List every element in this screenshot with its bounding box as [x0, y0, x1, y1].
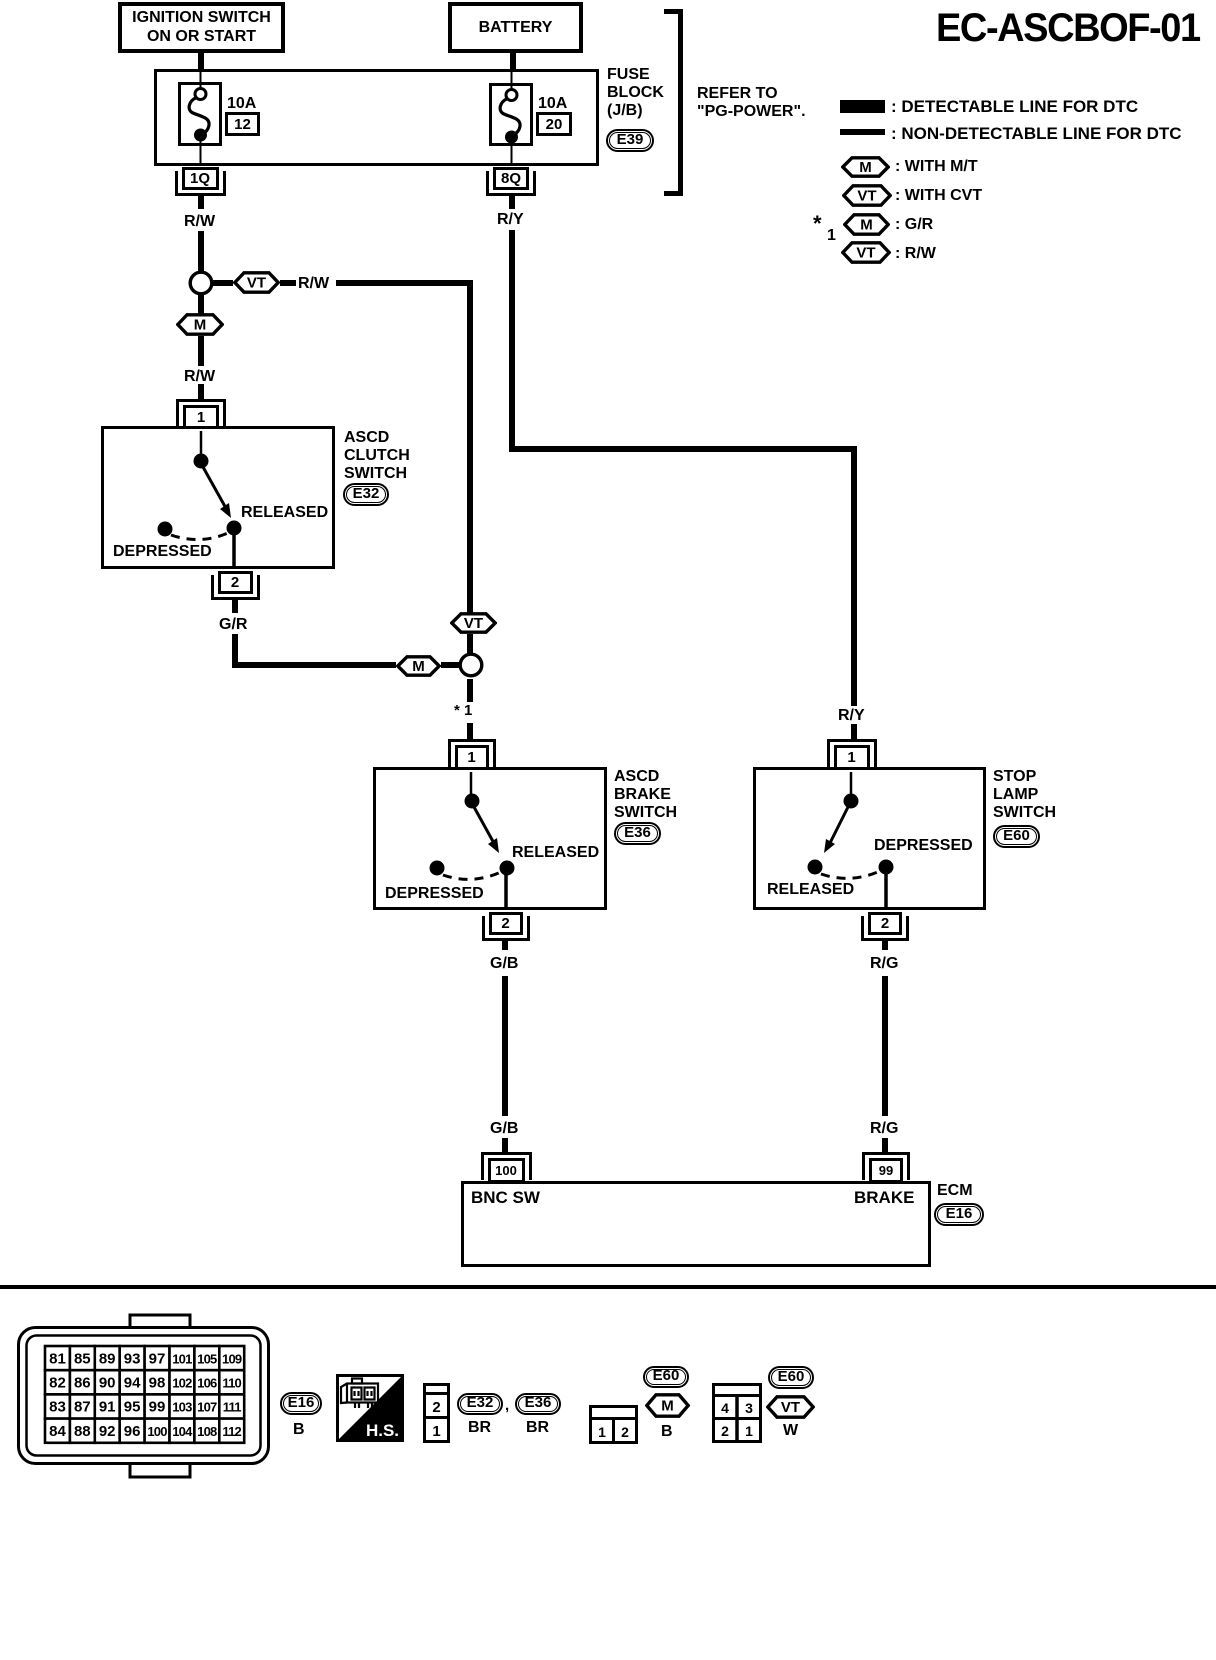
wire stub below brake pin 2: [502, 940, 508, 950]
wire G/R horizontal run to M hexagon: [232, 662, 396, 668]
wire stub below 1Q: [198, 196, 204, 209]
label ECM: [937, 1182, 973, 1200]
hexagon VT (connector view): [766, 1395, 815, 1419]
wire CVT branch into VT hexagon: [467, 612, 473, 614]
legend label detectable: [891, 97, 1138, 116]
label W (E60 CVT colour): [783, 1422, 798, 1440]
svg-text:86: 86: [74, 1375, 91, 1392]
wire label G/R: [219, 616, 247, 634]
svg-text:1: 1: [432, 1423, 440, 1440]
svg-text:84: 84: [49, 1423, 66, 1440]
label FUSE BLOCK (J/B): [607, 66, 664, 120]
connector E32 oval (view): [457, 1393, 503, 1415]
legend label G/R: [895, 216, 933, 234]
fuse 10A (slot 20) body: [489, 83, 533, 146]
svg-text:90: 90: [99, 1375, 116, 1392]
wire CVT branch vertical run to VT hexagon: [467, 280, 473, 613]
label BR (E36 colour): [526, 1419, 549, 1437]
svg-text:VT: VT: [857, 188, 876, 205]
connector E16 oval: [934, 1203, 984, 1226]
label DEPRESSED (clutch): [113, 543, 212, 561]
svg-text:82: 82: [49, 1375, 66, 1392]
wire label G/B lower: [490, 1120, 518, 1138]
wire label R/Y below 8Q: [497, 211, 524, 229]
ASCD brake switch box (E36): [373, 767, 607, 910]
svg-text:100: 100: [147, 1424, 167, 1439]
fuse 10A (slot 12) element symbol: [178, 69, 222, 169]
clutch switch contacts, arrow and throw: [101, 426, 335, 569]
separator line: [0, 1285, 1216, 1289]
pin 2 stop lamp switch: [868, 912, 902, 935]
label RELEASED (stop lamp): [767, 881, 854, 899]
connector view E32/E36 two-cavity: [423, 1383, 451, 1443]
wire label R/G upper: [870, 955, 898, 973]
svg-text:104: 104: [172, 1424, 193, 1439]
svg-text:97: 97: [149, 1350, 166, 1367]
svg-text:2: 2: [721, 1423, 729, 1439]
wire ignition switch to fuse block: [198, 53, 204, 70]
svg-text:101: 101: [172, 1351, 192, 1366]
connector E60 oval: [993, 825, 1040, 848]
wire *1 to brake switch pin 1: [467, 723, 473, 740]
fuse number 12 box: [225, 112, 260, 136]
hexagon M branch (M/T): [176, 313, 224, 336]
harness side view icon H.S.: [336, 1374, 404, 1442]
wire R/G into terminal 99: [882, 1138, 888, 1152]
svg-text:96: 96: [124, 1423, 141, 1440]
connector E16 oval (pinout): [280, 1392, 322, 1415]
legend thin non-detectable line sample: [840, 129, 885, 135]
svg-text:81: 81: [49, 1350, 66, 1367]
wire G/B long vertical: [502, 976, 508, 1116]
wire battery to fuse block: [510, 53, 516, 70]
wire label R/W on CVT branch: [298, 275, 329, 293]
ignition switch box: [118, 2, 285, 53]
legend label R/W: [895, 245, 936, 263]
svg-text:112: 112: [222, 1424, 241, 1439]
ASCD clutch switch box (E32): [101, 426, 335, 569]
legend star: [813, 212, 822, 237]
fuse 10A (slot 12) body: [178, 82, 222, 146]
legend thick detectable line sample: [840, 100, 885, 113]
wire into ASCD clutch switch pin 1: [198, 384, 204, 400]
svg-text:2: 2: [621, 1424, 629, 1440]
label ASCD CLUTCH SWITCH: [344, 429, 410, 483]
svg-text:91: 91: [99, 1399, 116, 1416]
comma between E32 and E36: [505, 1398, 509, 1415]
bracket REFER TO PG-POWER: [664, 9, 683, 14]
wire label R/W above clutch switch: [184, 368, 215, 386]
wire stub below stop lamp pin 2: [882, 940, 888, 950]
ECM box: [461, 1181, 931, 1267]
hexagon VT branch (CVT): [233, 271, 280, 294]
connector view E60 M/T two-cavity: [589, 1405, 638, 1444]
wire R/G long vertical: [882, 976, 888, 1116]
terminal 99 BRAKE: [862, 1152, 910, 1155]
legend hexagon M: [841, 156, 890, 178]
hexagon VT (CVT path to brake switch): [450, 612, 497, 634]
wire R/Y horizontal run: [509, 446, 857, 452]
svg-text:VT: VT: [856, 245, 875, 262]
connector 1Q: [182, 167, 219, 190]
ECM connector pinout view (E16): [10, 1308, 280, 1483]
fuse number 20 box: [536, 112, 572, 136]
hexagon M (connector view): [645, 1393, 690, 1418]
pin 1 stop lamp switch: [827, 739, 877, 742]
label REFER TO PG-POWER: [697, 85, 806, 121]
legend hexagon VT (R/W): [841, 241, 891, 264]
svg-text:102: 102: [172, 1376, 192, 1391]
svg-text:VT: VT: [781, 1399, 800, 1416]
terminal 100 BNC SW: [481, 1152, 532, 1155]
fuse 10A (slot 20) element symbol: [489, 69, 533, 169]
connector E60 oval (M/T view): [643, 1366, 689, 1388]
wire R/Y vertical from 8Q: [509, 230, 515, 452]
wire 1Q to junction node: [198, 231, 204, 272]
svg-text:4: 4: [721, 1400, 729, 1416]
svg-text:98: 98: [149, 1375, 166, 1392]
label B (E60 M/T colour): [661, 1423, 673, 1441]
legend label WITH M/T: [895, 158, 978, 176]
label BNC SW: [471, 1188, 540, 1207]
svg-text:89: 89: [99, 1350, 116, 1367]
svg-text:1: 1: [745, 1423, 753, 1439]
fuse block J/B box: [154, 69, 599, 166]
label STOP LAMP SWITCH: [993, 768, 1056, 822]
title EC-ASCBOF-01: [936, 6, 1200, 51]
svg-text:110: 110: [222, 1376, 241, 1391]
wire junction to M hexagon: [198, 294, 204, 314]
connector 8Q: [493, 167, 529, 190]
svg-text:92: 92: [99, 1423, 116, 1440]
junction node circle 2: [457, 651, 485, 679]
svg-text:94: 94: [124, 1375, 141, 1392]
wire label G/B upper: [490, 955, 518, 973]
svg-text:M: M: [859, 159, 872, 176]
wire label *1: [454, 703, 472, 720]
label DEPRESSED (stop lamp): [874, 837, 973, 855]
svg-text:M: M: [860, 217, 873, 234]
svg-text:108: 108: [197, 1424, 217, 1439]
wire G/B into terminal 100: [502, 1138, 508, 1152]
svg-text:M: M: [412, 658, 425, 675]
label DEPRESSED (brake): [385, 885, 484, 903]
connector E60 oval (CVT view): [768, 1366, 814, 1389]
svg-text:VT: VT: [247, 275, 266, 292]
svg-text:85: 85: [74, 1350, 91, 1367]
wire stub below 8Q: [509, 196, 515, 209]
stop lamp switch box (E60): [753, 767, 986, 910]
svg-text:88: 88: [74, 1423, 91, 1440]
pin 2 ASCD clutch switch: [218, 571, 253, 594]
svg-text:105: 105: [197, 1351, 217, 1366]
legend hexagon M (G/R): [843, 213, 890, 236]
pin 1 ASCD brake switch: [448, 739, 496, 742]
svg-text:106: 106: [197, 1376, 217, 1391]
svg-text:2: 2: [432, 1399, 440, 1416]
wire R/Y into stop lamp pin 1: [851, 724, 857, 740]
wire junction 2 down: [467, 679, 473, 702]
svg-text:M: M: [194, 317, 207, 334]
pin 2 ASCD brake switch: [489, 912, 523, 935]
label ASCD BRAKE SWITCH: [614, 768, 677, 822]
hexagon M (M/T path to brake switch): [396, 655, 441, 677]
wire M hexagon to junction node 2: [441, 662, 459, 668]
legend label non-detectable: [891, 124, 1182, 143]
wire label R/G lower: [870, 1120, 898, 1138]
connector E36 oval (view): [515, 1393, 561, 1415]
pin 1 ASCD clutch switch: [176, 399, 226, 402]
svg-text:87: 87: [74, 1399, 91, 1416]
battery box: [448, 2, 583, 53]
junction node circle (M/T-CVT split): [187, 269, 215, 297]
connector view E60 CVT four-cavity: [712, 1383, 762, 1443]
wire label R/W below 1Q: [184, 213, 215, 231]
svg-text:M: M: [661, 1398, 674, 1415]
label 10A fuse 12: [227, 95, 256, 113]
connector E39 oval: [606, 129, 654, 152]
svg-text:VT: VT: [464, 615, 483, 632]
svg-text:103: 103: [172, 1400, 192, 1415]
label BR (E32 colour): [468, 1419, 491, 1437]
svg-text:H.S.: H.S.: [366, 1421, 399, 1440]
stop lamp switch contacts, arrow and throw: [753, 767, 986, 910]
wire G/R vertical: [232, 634, 238, 668]
svg-text:109: 109: [222, 1351, 242, 1366]
wire R/Y vertical to stop lamp switch: [851, 446, 857, 706]
svg-text:99: 99: [149, 1399, 166, 1416]
svg-text:111: 111: [223, 1400, 241, 1415]
svg-text:83: 83: [49, 1399, 66, 1416]
label BRAKE: [854, 1188, 914, 1207]
legend label WITH CVT: [895, 187, 982, 205]
label RELEASED (brake): [512, 844, 599, 862]
brake switch contacts, arrow and throw: [373, 767, 607, 910]
legend star subscript 1: [827, 227, 836, 245]
legend hexagon VT: [842, 184, 892, 207]
wire junction to VT hexagon: [213, 280, 233, 286]
svg-text:95: 95: [124, 1399, 141, 1416]
svg-text:1: 1: [598, 1424, 606, 1440]
wire VT hexagon to junction node 2: [467, 634, 473, 654]
label RELEASED (clutch): [241, 504, 328, 522]
label B (E16 connector colour): [293, 1421, 305, 1439]
svg-text:93: 93: [124, 1350, 141, 1367]
wire VT hexagon to R/W label: [280, 280, 296, 286]
wire M hexagon down: [198, 336, 204, 366]
svg-text:107: 107: [197, 1400, 217, 1415]
label 10A fuse 20: [538, 95, 567, 113]
wire stub below clutch pin 2: [232, 600, 238, 613]
connector E36 oval: [614, 822, 661, 845]
wire label R/Y above stop lamp switch: [838, 707, 865, 725]
svg-text:3: 3: [745, 1400, 753, 1416]
connector E32 oval: [343, 483, 389, 506]
wire CVT branch horizontal run: [336, 280, 473, 286]
